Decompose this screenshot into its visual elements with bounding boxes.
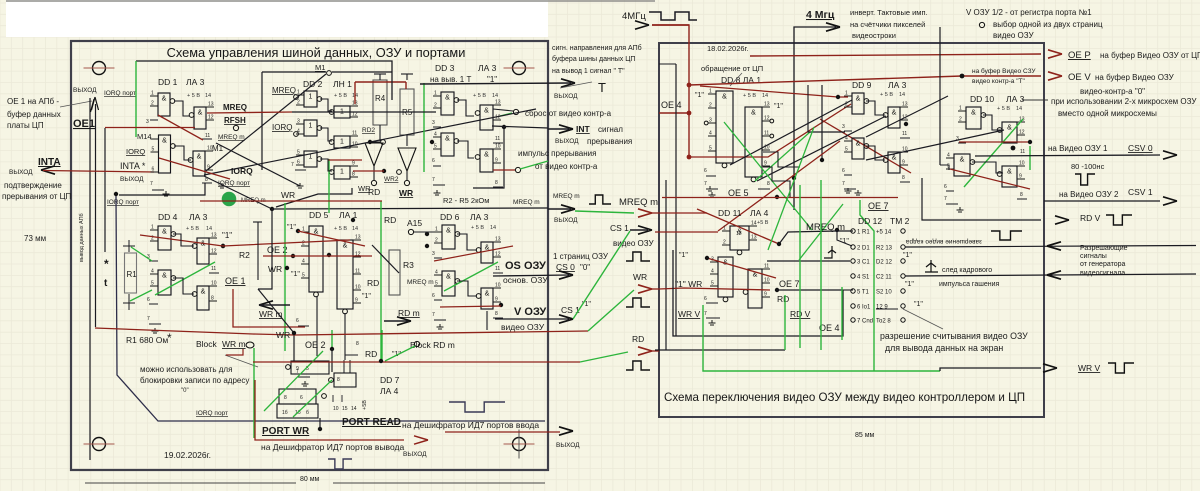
svg-text:можно использовать для: можно использовать для: [140, 365, 232, 374]
svg-text:9: 9: [764, 161, 767, 167]
svg-text:+ 5 В: + 5 В: [743, 93, 756, 99]
svg-text:3: 3: [146, 119, 149, 125]
svg-text:4 S1: 4 S1: [857, 275, 870, 281]
svg-text:WR: WR: [268, 264, 282, 274]
svg-text:видео ОЗУ: видео ОЗУ: [501, 322, 545, 332]
svg-text:C2 11: C2 11: [876, 275, 892, 281]
svg-text:12: 12: [1019, 130, 1025, 136]
svg-text:14: 14: [751, 221, 757, 227]
svg-text:на Дешифратор ИД7 портов ввода: на Дешифратор ИД7 портов ввода: [402, 420, 539, 430]
svg-text:11: 11: [211, 266, 216, 272]
svg-text:INTA *: INTA *: [120, 161, 146, 171]
svg-text:7: 7: [704, 181, 707, 187]
svg-text:сигнал: сигнал: [598, 125, 623, 134]
svg-text:1: 1: [959, 106, 962, 112]
svg-text:&: &: [162, 138, 167, 145]
svg-text:+5 14: +5 14: [876, 230, 892, 236]
svg-text:14: 14: [352, 226, 358, 232]
svg-text:12: 12: [736, 231, 742, 237]
svg-text:3: 3: [842, 124, 845, 130]
svg-text:WR: WR: [281, 190, 295, 200]
svg-text:ВЫХОД: ВЫХОД: [554, 217, 578, 224]
svg-text:7: 7: [432, 177, 435, 183]
svg-text:"0": "0": [580, 263, 590, 272]
svg-text:1 страниц ОЗУ: 1 страниц ОЗУ: [553, 252, 609, 261]
svg-text:М1: М1: [212, 144, 224, 153]
svg-text:14: 14: [899, 92, 905, 98]
svg-text:инверт. Тактовые имп.: инверт. Тактовые имп.: [850, 8, 928, 17]
svg-text:5: 5: [302, 273, 305, 279]
svg-text:11: 11: [902, 131, 907, 137]
svg-text:2: 2: [435, 238, 438, 244]
svg-text:9: 9: [902, 160, 905, 166]
svg-text:&: &: [162, 96, 167, 103]
svg-text:RD: RD: [777, 294, 789, 304]
svg-text:ОЕ 7: ОЕ 7: [868, 201, 889, 211]
svg-text:DD 6: DD 6: [440, 212, 460, 222]
svg-text:видеосигнала: видеосигнала: [1080, 270, 1125, 277]
svg-text:&: &: [197, 154, 202, 161]
svg-text:ВЫХОД: ВЫХОД: [9, 169, 33, 176]
svg-text:видео контр-а "Т": видео контр-а "Т": [972, 78, 1025, 85]
svg-text:ЛА 1: ЛА 1: [339, 210, 358, 220]
svg-text:ЛА 3: ЛА 3: [888, 80, 907, 90]
svg-text:&: &: [856, 96, 861, 103]
svg-text:8: 8: [495, 180, 498, 186]
svg-text:&: &: [856, 141, 861, 148]
svg-text:4МГц: 4МГц: [622, 11, 646, 22]
svg-text:11: 11: [355, 269, 360, 275]
svg-text:RD: RD: [367, 278, 379, 288]
svg-text:"1": "1": [905, 281, 914, 288]
svg-text:4: 4: [297, 129, 300, 135]
svg-text:&: &: [485, 291, 490, 298]
svg-text:"1": "1": [903, 252, 912, 259]
svg-text:+ 5 В: + 5 В: [186, 226, 199, 232]
svg-text:"1": "1": [774, 103, 783, 110]
svg-text:ОЕ 4: ОЕ 4: [819, 323, 840, 333]
svg-text:6: 6: [296, 318, 299, 324]
svg-text:2: 2: [434, 103, 437, 109]
svg-text:9: 9: [352, 161, 355, 167]
svg-text:4 Мгц: 4 Мгц: [806, 9, 835, 21]
svg-text:на счётчики пикселей: на счётчики пикселей: [850, 20, 925, 29]
svg-text:6: 6: [842, 168, 845, 174]
svg-text:IORQ порт: IORQ порт: [107, 199, 139, 206]
svg-text:Разрешающие: Разрешающие: [1080, 245, 1128, 252]
svg-text:OS ОЗУ: OS ОЗУ: [505, 260, 546, 272]
svg-text:2: 2: [151, 101, 154, 107]
svg-text:7: 7: [944, 196, 947, 202]
svg-text:4: 4: [711, 269, 714, 275]
svg-text:8: 8: [352, 172, 355, 178]
svg-text:ЛА 3: ЛА 3: [478, 63, 497, 73]
svg-text:12: 12: [495, 252, 501, 258]
svg-text:73 мм: 73 мм: [24, 234, 46, 243]
svg-text:V ОЗУ 1/2 - от регистра порта: V ОЗУ 1/2 - от регистра порта №1: [966, 8, 1092, 17]
svg-text:ЛН 1: ЛН 1: [333, 79, 352, 89]
svg-text:основ. ОЗУ: основ. ОЗУ: [503, 275, 548, 285]
svg-text:1: 1: [151, 225, 154, 231]
svg-text:11: 11: [764, 131, 769, 137]
svg-text:разрешение считывания видео ОЗ: разрешение считывания видео ОЗУ: [880, 331, 1028, 341]
svg-text:ВЫХОД: ВЫХОД: [554, 93, 578, 100]
svg-text:след кадрового: след кадрового: [942, 267, 992, 274]
svg-text:*: *: [104, 257, 109, 271]
svg-text:INT: INT: [576, 124, 591, 134]
svg-text:+5В: +5В: [362, 400, 368, 410]
svg-text:1б: 1б: [282, 410, 288, 416]
svg-text:ЛА 3: ЛА 3: [189, 212, 208, 222]
svg-text:ЛА 3: ЛА 3: [470, 212, 489, 222]
svg-text:13: 13: [355, 235, 361, 241]
svg-text:б: б: [306, 410, 309, 416]
svg-text:для вывода данных на экран: для вывода данных на экран: [885, 343, 1003, 353]
svg-text:10: 10: [764, 278, 770, 284]
svg-text:1: 1: [709, 89, 712, 95]
svg-text:вывод данных АПб: вывод данных АПб: [79, 213, 85, 262]
svg-text:ОЕ V: ОЕ V: [1068, 72, 1091, 83]
svg-text:+5 В: +5 В: [757, 220, 769, 226]
svg-text:9: 9: [495, 158, 498, 164]
svg-text:от видео контр-а: от видео контр-а: [535, 162, 598, 171]
svg-text:11: 11: [495, 136, 500, 142]
svg-text:на буфер Видео ОЗУ от ЦП: на буфер Видео ОЗУ от ЦП: [1100, 51, 1200, 60]
svg-text:DD 11: DD 11: [718, 208, 742, 218]
svg-text:3: 3: [956, 136, 959, 142]
svg-text:14: 14: [492, 93, 498, 99]
svg-text:1: 1: [340, 169, 344, 176]
svg-text:сигналы: сигналы: [1080, 253, 1107, 260]
svg-text:"1": "1": [362, 293, 371, 300]
svg-text:IORQ: IORQ: [272, 123, 292, 132]
svg-text:14: 14: [205, 93, 211, 99]
svg-text:ЛА 3: ЛА 3: [1006, 94, 1025, 104]
svg-text:WR m: WR m: [222, 339, 246, 349]
svg-text:R2 - R5 2кОм: R2 - R5 2кОм: [443, 196, 489, 205]
svg-text:*: *: [167, 331, 172, 345]
svg-text:&: &: [162, 229, 167, 236]
svg-text:4: 4: [947, 153, 950, 159]
svg-text:WR V: WR V: [678, 309, 701, 319]
svg-text:8: 8: [495, 311, 498, 317]
svg-text:V ОЗУ: V ОЗУ: [514, 306, 546, 318]
svg-text:MREQ: MREQ: [223, 103, 247, 112]
svg-text:MREQ m: MREQ m: [218, 134, 245, 141]
svg-text:прерывания: прерывания: [587, 137, 632, 146]
svg-text:5: 5: [151, 281, 154, 287]
svg-text:"1": "1": [695, 92, 704, 99]
svg-text:2: 2: [302, 241, 305, 247]
svg-text:+ 5 В: + 5 В: [187, 93, 200, 99]
svg-text:&: &: [201, 289, 206, 296]
svg-text:"1": "1": [222, 231, 232, 240]
svg-text:сигн. направления для АПб: сигн. направления для АПб: [552, 44, 642, 52]
svg-text:&: &: [484, 108, 489, 115]
svg-text:10: 10: [1019, 161, 1025, 167]
svg-text:8: 8: [356, 341, 359, 347]
svg-text:4: 4: [151, 269, 154, 275]
svg-text:13: 13: [751, 235, 757, 241]
svg-text:OE 2: OE 2: [305, 340, 326, 350]
svg-text:WR: WR: [276, 330, 290, 340]
svg-text:1: 1: [297, 90, 300, 96]
svg-text:ОЕ 1: ОЕ 1: [225, 276, 246, 286]
svg-text:10: 10: [211, 281, 217, 287]
svg-text:&: &: [1007, 169, 1012, 176]
svg-text:1: 1: [434, 91, 437, 97]
svg-text:&: &: [1007, 125, 1012, 132]
svg-text:PORT READ: PORT READ: [342, 417, 401, 428]
svg-text:ЛА 4: ЛА 4: [380, 386, 399, 396]
svg-text:RD: RD: [632, 334, 644, 344]
svg-text:Т: Т: [598, 80, 606, 95]
svg-text:DD 4: DD 4: [158, 212, 178, 222]
svg-text:+ 5 В: + 5 В: [473, 93, 486, 99]
svg-text:7: 7: [842, 181, 845, 187]
svg-text:CS 1: CS 1: [610, 223, 629, 233]
svg-text:1: 1: [151, 91, 154, 97]
svg-text:1: 1: [340, 139, 344, 146]
svg-text:1: 1: [309, 123, 313, 130]
svg-text:13: 13: [495, 100, 501, 106]
svg-text:при использовании 2-х микросхе: при использовании 2-х микросхем ОЗУ: [1051, 97, 1197, 106]
svg-text:IORQ порт: IORQ порт: [218, 180, 250, 187]
svg-text:DD 9: DD 9: [852, 80, 872, 90]
svg-text:14: 14: [490, 225, 496, 231]
svg-text:3: 3: [297, 119, 300, 125]
svg-text:85 мм: 85 мм: [855, 432, 875, 439]
svg-text:ОЕ 7: ОЕ 7: [779, 279, 800, 289]
svg-text:&: &: [343, 243, 348, 250]
svg-text:14: 14: [351, 406, 357, 412]
svg-text:4: 4: [435, 270, 438, 276]
svg-text:&: &: [722, 94, 727, 101]
svg-text:&: &: [484, 152, 489, 159]
svg-text:To2 8: To2 8: [876, 319, 891, 325]
svg-text:5: 5: [434, 144, 437, 150]
svg-text:6: 6: [432, 293, 435, 299]
svg-text:MREQ m: MREQ m: [619, 197, 658, 208]
svg-text:7 Cnd: 7 Cnd: [857, 319, 873, 325]
svg-text:RD V: RD V: [1080, 213, 1101, 223]
svg-text:7: 7: [150, 181, 153, 187]
svg-text:видео-контр-а "0": видео-контр-а "0": [1080, 87, 1145, 96]
svg-text:сброс от видео контр-а: сброс от видео контр-а: [525, 109, 612, 118]
svg-text:5: 5: [709, 146, 712, 152]
svg-text:11: 11: [1020, 149, 1025, 155]
svg-text:11: 11: [495, 266, 500, 272]
svg-text:80 -100нс: 80 -100нс: [1071, 162, 1105, 171]
svg-text:7: 7: [291, 162, 294, 168]
svg-text:импульса гашения: импульса гашения: [939, 281, 1000, 288]
svg-text:9: 9: [355, 298, 358, 304]
svg-text:6: 6: [432, 158, 435, 164]
svg-text:RD: RD: [365, 349, 377, 359]
svg-text:7: 7: [147, 316, 150, 322]
svg-text:CSV 0: CSV 0: [1128, 143, 1153, 153]
svg-text:5: 5: [711, 281, 714, 287]
svg-text:13: 13: [902, 102, 908, 108]
svg-text:ВЫХОД: ВЫХОД: [73, 87, 97, 94]
svg-text:RD m: RD m: [398, 308, 420, 318]
svg-text:5: 5: [435, 281, 438, 287]
svg-text:12: 12: [764, 116, 770, 122]
svg-text:1: 1: [309, 94, 313, 101]
svg-text:3: 3: [432, 251, 435, 257]
svg-text:на вывод 1 сигнал " Т": на вывод 1 сигнал " Т": [552, 68, 625, 75]
svg-text:WR: WR: [633, 272, 647, 282]
svg-text:&: &: [445, 136, 450, 143]
svg-text:MREQ m: MREQ m: [407, 279, 434, 286]
svg-text:"1": "1": [287, 224, 296, 231]
svg-text:5: 5: [845, 147, 848, 153]
svg-text:ВЫХОД: ВЫХОД: [555, 138, 579, 145]
svg-text:6: 6: [147, 297, 150, 303]
svg-text:&: &: [446, 228, 451, 235]
svg-text:14: 14: [1016, 106, 1022, 112]
svg-text:+ 5 В: + 5 В: [471, 225, 484, 231]
svg-text:WR m: WR m: [259, 309, 283, 319]
svg-text:Схема переключения видео ОЗУ: Схема переключения видео ОЗУ между видео…: [664, 391, 1025, 404]
svg-text:DD 3: DD 3: [435, 63, 455, 73]
svg-text:MREQ m: MREQ m: [513, 199, 540, 206]
svg-text:3: 3: [709, 118, 712, 124]
svg-text:10: 10: [495, 144, 501, 150]
svg-text:14: 14: [762, 93, 768, 99]
svg-text:15: 15: [342, 406, 348, 412]
svg-text:6: 6: [944, 184, 947, 190]
svg-text:IORQ: IORQ: [126, 147, 145, 156]
svg-text:8: 8: [1020, 192, 1023, 198]
svg-text:9: 9: [1019, 174, 1022, 180]
svg-text:буфера шины данных ЦП: буфера шины данных ЦП: [552, 55, 635, 63]
svg-text:&: &: [960, 157, 965, 164]
svg-text:&: &: [892, 155, 897, 162]
svg-text:на Видео ОЗУ 1: на Видео ОЗУ 1: [1048, 144, 1108, 153]
svg-text:6: 6: [300, 395, 303, 401]
svg-text:IORQ порт: IORQ порт: [196, 410, 228, 417]
svg-text:9: 9: [764, 292, 767, 298]
svg-text:8: 8: [902, 175, 905, 181]
svg-text:R4: R4: [375, 94, 386, 103]
svg-text:"0": "0": [181, 388, 189, 394]
svg-text:прерывания от ЦП: прерывания от ЦП: [2, 192, 72, 201]
svg-text:+ 5 В: + 5 В: [880, 92, 893, 98]
svg-text:1: 1: [723, 226, 726, 232]
svg-text:4: 4: [709, 131, 712, 137]
svg-text:на Дешифратор ИД7 портов вывод: на Дешифратор ИД7 портов вывода: [261, 442, 404, 452]
svg-text:ВЫХОД: ВЫХОД: [556, 442, 580, 449]
svg-text:6: 6: [704, 296, 707, 302]
svg-text:на буфер Видео ОЗУ: на буфер Видео ОЗУ: [1095, 73, 1175, 82]
svg-text:ТМ 2: ТМ 2: [890, 216, 910, 226]
svg-text:обращение от ЦП: обращение от ЦП: [701, 64, 763, 73]
svg-text:13: 13: [211, 233, 217, 239]
svg-text:DD 5: DD 5: [309, 210, 329, 220]
svg-text:12: 12: [208, 115, 214, 121]
svg-text:2 D1: 2 D1: [857, 246, 870, 252]
svg-text:MREQ: MREQ: [272, 86, 296, 95]
svg-text:DD 1: DD 1: [158, 77, 178, 87]
svg-text:DD 7: DD 7: [380, 375, 400, 385]
svg-text:&: &: [446, 274, 451, 281]
svg-text:D2 12: D2 12: [876, 260, 893, 266]
svg-text:INTA: INTA: [38, 157, 61, 168]
svg-text:18.02.2026г.: 18.02.2026г.: [707, 44, 748, 53]
svg-text:8: 8: [211, 296, 214, 302]
svg-text:видеостроки: видеостроки: [852, 31, 896, 40]
svg-text:"1": "1": [487, 75, 497, 84]
svg-text:&: &: [162, 273, 167, 280]
svg-text:CS 0: CS 0: [556, 262, 575, 272]
svg-text:завершение видео кадра: завершение видео кадра: [906, 238, 983, 245]
svg-text:ВЫХОД: ВЫХОД: [120, 176, 144, 183]
svg-text:ОЕ1: ОЕ1: [73, 118, 95, 130]
svg-text:R2: R2: [239, 250, 250, 260]
svg-text:2: 2: [723, 240, 726, 246]
svg-text:2: 2: [709, 103, 712, 109]
svg-text:видео ОЗУ: видео ОЗУ: [993, 31, 1034, 40]
svg-text:от генератора: от генератора: [1080, 261, 1125, 268]
svg-text:ОЕ 1 на АПб -: ОЕ 1 на АПб -: [7, 97, 59, 106]
svg-text:"1": "1": [914, 301, 923, 308]
svg-text:4: 4: [302, 259, 305, 265]
svg-text:на выв. 1 Т: на выв. 1 Т: [430, 75, 471, 84]
svg-text:10: 10: [333, 406, 339, 412]
svg-text:&: &: [892, 110, 897, 117]
svg-text:"1": "1": [291, 271, 300, 278]
svg-text:подтверждение: подтверждение: [4, 181, 62, 190]
svg-text:11: 11: [205, 133, 210, 139]
svg-text:RD: RD: [368, 187, 380, 197]
svg-text:R1: R1: [127, 270, 138, 279]
svg-text:ОЕ 4: ОЕ 4: [661, 100, 682, 110]
svg-text:&: &: [751, 110, 756, 117]
svg-text:ОЕ 5: ОЕ 5: [728, 188, 749, 198]
svg-text:1: 1: [435, 227, 438, 233]
svg-text:5: 5: [297, 150, 300, 156]
svg-text:ЛА 3: ЛА 3: [186, 77, 205, 87]
svg-text:9: 9: [296, 366, 299, 372]
svg-text:DD 12: DD 12: [858, 216, 882, 226]
svg-text:WR: WR: [399, 188, 413, 198]
svg-text:выбор одной из двух страниц: выбор одной из двух страниц: [993, 20, 1103, 29]
svg-text:CSV 1: CSV 1: [1128, 187, 1153, 197]
svg-text:ВЫХОД: ВЫХОД: [403, 451, 427, 458]
svg-text:7: 7: [704, 311, 707, 317]
svg-text:WR2: WR2: [384, 176, 399, 183]
svg-text:на буфер Видео СЗУ: на буфер Видео СЗУ: [972, 67, 1036, 75]
svg-text:+ 5 В: + 5 В: [997, 106, 1010, 112]
svg-text:10: 10: [355, 285, 361, 291]
svg-text:2: 2: [959, 117, 962, 123]
svg-text:RD: RD: [384, 215, 396, 225]
svg-text:"1": "1": [679, 252, 688, 259]
svg-text:13: 13: [495, 237, 501, 243]
svg-text:&: &: [198, 110, 203, 117]
svg-text:1 R1: 1 R1: [857, 230, 870, 236]
svg-text:IORQ порт: IORQ порт: [104, 90, 136, 97]
svg-text:WR V: WR V: [1078, 363, 1101, 373]
svg-text:платы ЦП: платы ЦП: [7, 121, 44, 130]
svg-text:13: 13: [764, 102, 770, 108]
svg-text:MREQ m: MREQ m: [553, 193, 580, 200]
svg-text:12 9: 12 9: [876, 305, 888, 311]
svg-text:М14: М14: [137, 132, 152, 141]
svg-text:11: 11: [352, 131, 357, 137]
svg-text:Схема управления шиной данных: Схема управления шиной данных, ОЗУ и пор…: [167, 45, 466, 60]
